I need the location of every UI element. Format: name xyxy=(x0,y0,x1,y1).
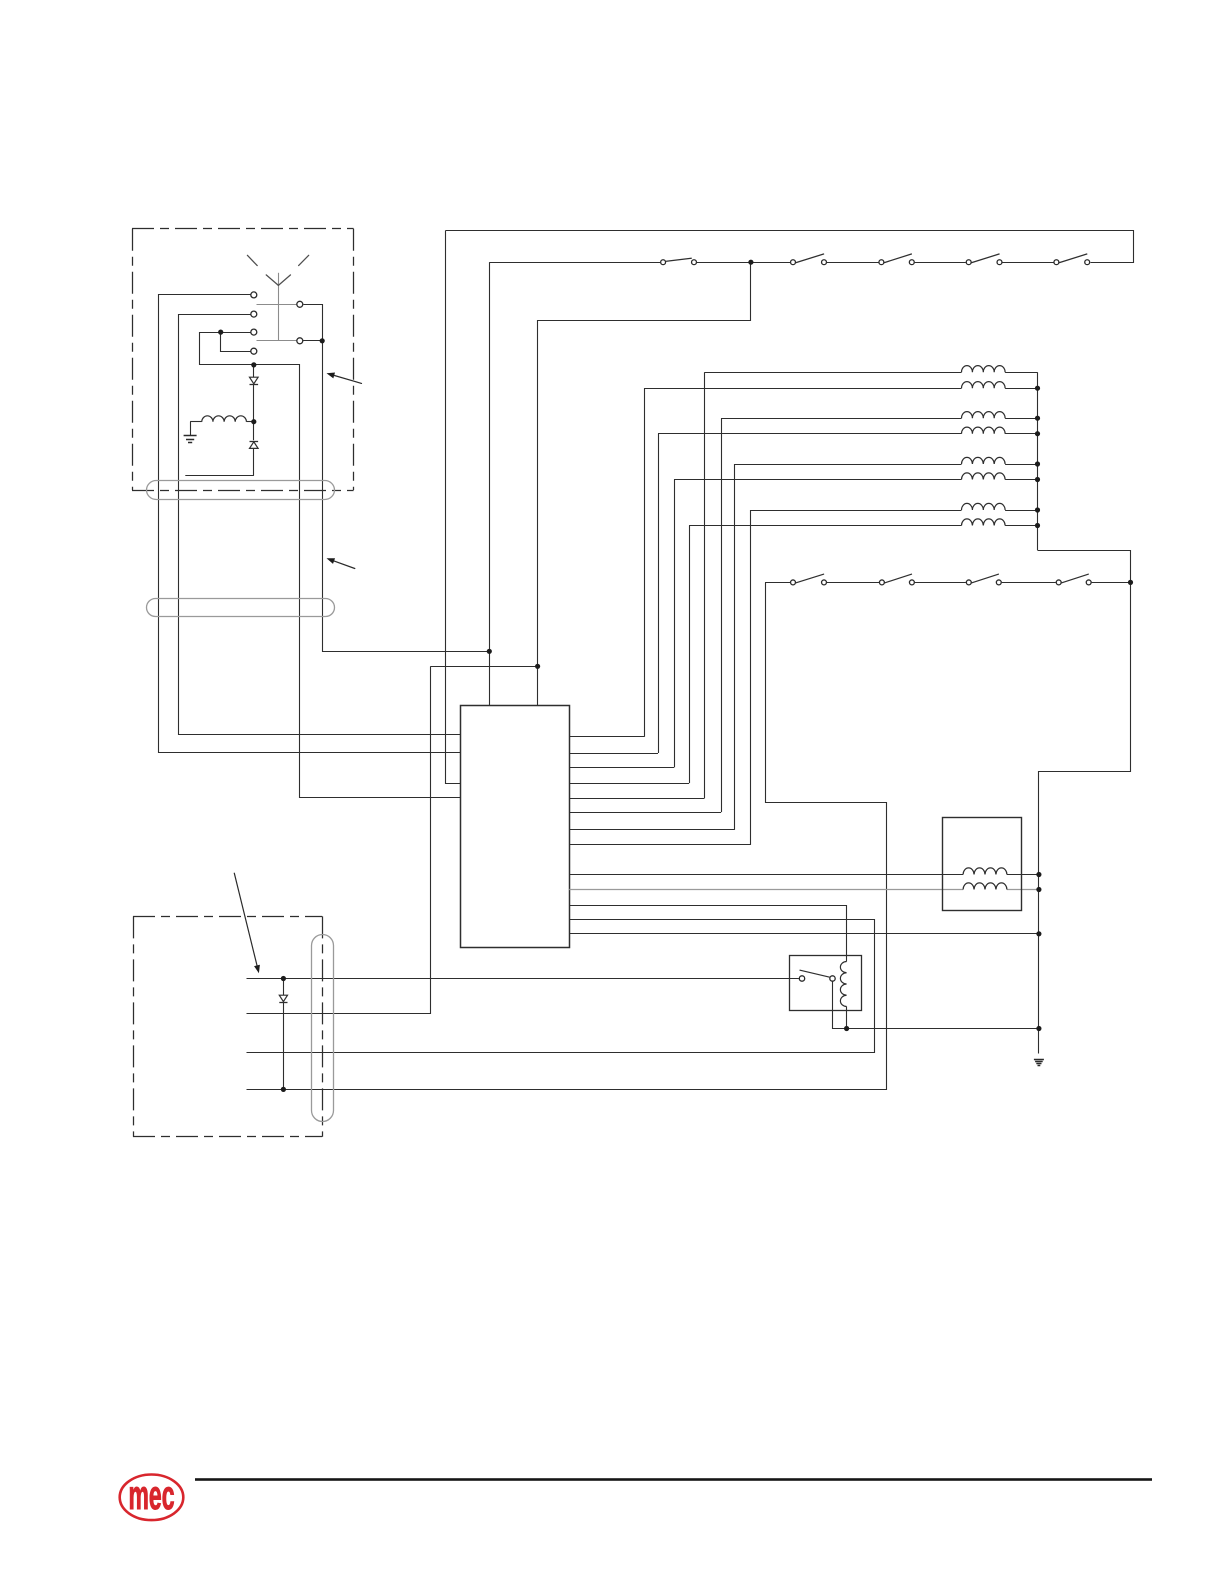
svg-text:mec: mec xyxy=(129,1473,175,1519)
